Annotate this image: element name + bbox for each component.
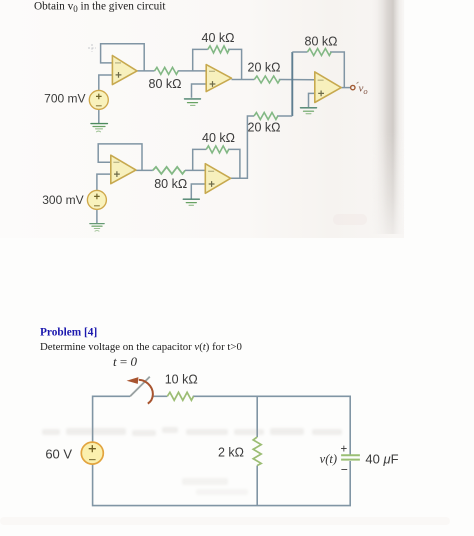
svg-text:20 kΩ: 20 kΩ <box>248 121 281 135</box>
svg-text:+: + <box>341 444 348 456</box>
svg-text:60 V: 60 V <box>45 447 72 462</box>
svg-text:10 kΩ: 10 kΩ <box>165 373 198 387</box>
svg-text:2 kΩ: 2 kΩ <box>218 446 244 460</box>
svg-text:40 kΩ: 40 kΩ <box>202 31 235 45</box>
svg-text:80 kΩ: 80 kΩ <box>305 35 338 49</box>
svg-text:80 kΩ: 80 kΩ <box>154 177 187 191</box>
svg-text:20 kΩ: 20 kΩ <box>248 61 281 75</box>
svg-text:Determine voltage on the capac: Determine voltage on the capacitor v(t) … <box>40 341 242 353</box>
svg-text:40 μF: 40 μF <box>365 452 398 467</box>
svg-text:300 mV: 300 mV <box>42 193 83 207</box>
svg-text:40 kΩ: 40 kΩ <box>202 131 235 145</box>
svg-text:Problem [4]: Problem [4] <box>40 327 97 339</box>
svg-text:−: − <box>341 463 348 477</box>
svg-text:v(t): v(t) <box>320 452 337 466</box>
svg-text:t = 0: t = 0 <box>113 354 137 369</box>
svg-text:700 mV: 700 mV <box>44 91 85 105</box>
svg-text:80 kΩ: 80 kΩ <box>149 77 182 91</box>
svg-text:Obtain v0 in the given circuit: Obtain v0 in the given circuit <box>34 1 166 15</box>
